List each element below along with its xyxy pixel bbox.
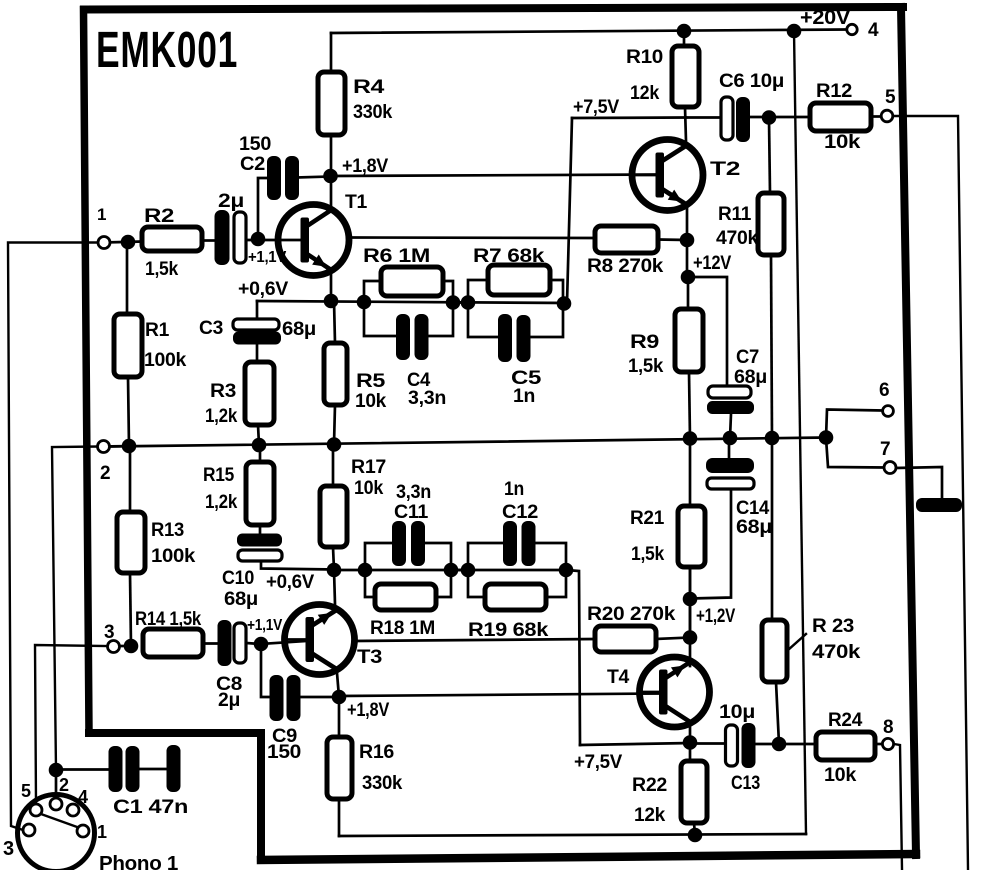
resistor R5 [324, 343, 347, 405]
svg-text:5: 5 [21, 781, 31, 801]
junction node R1/R2 input [121, 235, 136, 250]
label T1 [345, 192, 368, 213]
wire terminal7 to chassis ground [896, 467, 942, 499]
svg-text:330k: 330k [362, 773, 403, 794]
wire bus right node down to terminal7 [826, 438, 884, 468]
wire R11 top [769, 119, 770, 193]
junction node bus R3/R15 [252, 438, 267, 453]
label Phono 1 [99, 853, 178, 870]
svg-text:R4: R4 [353, 77, 385, 98]
wire C2 left elbow down to base node [258, 178, 267, 239]
junction node R10 +20V [677, 24, 692, 39]
svg-text:R22: R22 [632, 775, 667, 796]
wire cell2 upper loop left [468, 280, 488, 303]
junction node T3 emitter [327, 563, 342, 578]
wire R15 top [259, 445, 262, 462]
svg-text:R20 270k: R20 270k [587, 604, 676, 625]
wire terminal1 to left edge and down to phono pin3 [8, 243, 99, 831]
wire R15 bottom to C10 [259, 525, 262, 535]
junction node bus R11/R23 [765, 431, 780, 446]
svg-text:12k: 12k [630, 83, 660, 104]
svg-text:R17: R17 [351, 457, 386, 478]
label C3 [199, 318, 223, 339]
label R18 1M [370, 618, 435, 639]
junction node T1 emitter [324, 294, 339, 309]
junction node cell3 left [358, 563, 373, 578]
wire T1 emitter down to node [330, 275, 333, 301]
svg-text:C12: C12 [502, 502, 538, 523]
wire R9 bottom to bus [689, 372, 690, 439]
label R12 [816, 81, 852, 102]
label R8 270k [587, 256, 664, 277]
wire +7.5V line to T2 collector node [572, 116, 686, 119]
junction node R22 on rail [688, 828, 703, 843]
terminal 6 [883, 406, 894, 417]
label R15 [203, 465, 235, 486]
junction node +20V feeder [787, 24, 802, 39]
wire C3 stem top [256, 301, 259, 318]
svg-text:68μ: 68μ [736, 517, 772, 538]
svg-text:R18 1M: R18 1M [370, 618, 435, 639]
label C10 value [224, 589, 258, 610]
svg-text:+7,5V: +7,5V [573, 97, 620, 118]
label C1 47n [113, 797, 188, 818]
wire R3 bottom to bus [258, 425, 259, 445]
chassis ground bar [916, 498, 962, 512]
wire R10 top to +20V rail [683, 31, 686, 46]
wire C2 right to collector node [297, 177, 331, 178]
wire terminal3 left and down to phono pin5 [35, 645, 108, 804]
capacitor C11 3.3n [392, 521, 425, 566]
svg-text:R 23: R 23 [812, 616, 854, 637]
svg-text:1,5k: 1,5k [628, 356, 664, 377]
wire R21 top to bus [689, 439, 692, 507]
wire terminal8 right and down [894, 744, 902, 869]
resistor R24 [816, 732, 875, 760]
svg-text:R10: R10 [626, 47, 663, 68]
wire lower feedback node down to +7.5V line [566, 570, 580, 745]
wire T3 base [261, 641, 306, 644]
wire +1.2V node to R20 node [689, 599, 692, 638]
svg-text:5: 5 [885, 87, 896, 108]
svg-text:150: 150 [239, 134, 271, 155]
svg-text:68μ: 68μ [734, 367, 767, 388]
label C10 [222, 568, 254, 589]
junction node cell4 right [559, 563, 574, 578]
wire cell3 upper loop right [425, 543, 451, 570]
label terminal 3 [104, 622, 114, 643]
wire R23 bottom to output node [776, 682, 779, 744]
svg-text:2μ: 2μ [218, 191, 244, 212]
svg-text:T4: T4 [607, 667, 630, 688]
svg-text:R19 68k: R19 68k [468, 620, 549, 641]
wire R5 bottom to bus [334, 405, 335, 445]
svg-text:68μ: 68μ [224, 589, 258, 610]
wire lower +7.5V line to T4 collector node [580, 743, 690, 745]
label R21 value [631, 544, 665, 565]
svg-text:12k: 12k [634, 805, 666, 826]
wire input cap to T1 base node [246, 239, 280, 242]
svg-text:C1 47n: C1 47n [113, 797, 188, 818]
wire +20V rail [331, 30, 846, 34]
svg-text:3,3n: 3,3n [396, 482, 431, 503]
wire T3 collector node to T4 base [339, 694, 659, 697]
wire ground bus 0V row [109, 438, 826, 447]
resistor R10 [672, 46, 699, 107]
resistor R9 [675, 309, 703, 372]
svg-text:R11: R11 [718, 204, 752, 225]
junction node bus C7/C14 [723, 431, 738, 446]
svg-text:+1,1V: +1,1V [248, 249, 287, 266]
svg-text:R16: R16 [359, 742, 394, 763]
label R22 [632, 775, 667, 796]
svg-text:10μ: 10μ [719, 702, 755, 723]
label T2 [710, 159, 740, 180]
svg-text:6: 6 [879, 380, 889, 401]
label R11 value [716, 228, 759, 249]
junction node +1.2V [683, 592, 698, 607]
resistor R15 [246, 462, 274, 525]
svg-text:R7 68k: R7 68k [473, 246, 545, 267]
resistor R18 [375, 584, 436, 610]
label +7.5V lower [574, 752, 623, 773]
label +1.8V [342, 156, 389, 177]
wire C7 bottom to bus [730, 414, 731, 438]
wire cell1 lower loop right [429, 302, 453, 336]
phono internal link pin5 to pin1 [41, 814, 77, 827]
svg-text:100k: 100k [144, 350, 187, 371]
label R2 [144, 206, 174, 227]
wire R16 bottom to +20V return rail [338, 799, 341, 836]
label terminal 4 [868, 20, 879, 41]
wire R9 top [687, 277, 690, 309]
junction node C1 / phono pin2 [49, 763, 64, 778]
label 150 [239, 134, 271, 155]
svg-text:8: 8 [883, 717, 893, 738]
junction node T3 collector +1.8V [332, 690, 347, 705]
svg-text:T1: T1 [345, 192, 368, 213]
label C12 [502, 502, 538, 523]
svg-text:+0,6V: +0,6V [238, 279, 289, 300]
svg-text:C7: C7 [736, 347, 759, 368]
wire R4 top to +20V rail [330, 33, 333, 72]
svg-text:C14: C14 [736, 498, 770, 519]
svg-text:C11: C11 [394, 502, 429, 523]
svg-text:470k: 470k [812, 642, 861, 663]
label R3 value [205, 406, 238, 427]
wire C9 right to T3 collector node [300, 696, 339, 699]
wire R20 right to T4 emitter node [656, 638, 690, 640]
label R9 value [628, 356, 664, 377]
phono pin 2 [50, 798, 62, 810]
wire input row: terminal1 to R2 [104, 242, 142, 243]
wire terminal2 left and down to C1 node [52, 447, 98, 771]
wire R17 bottom to node [333, 547, 334, 570]
wire C3 bottom to R3 [256, 344, 259, 362]
label +0.6V [238, 279, 289, 300]
wire bus right node up to terminal6 [826, 410, 882, 439]
svg-text:1n: 1n [504, 479, 524, 500]
label 3.3n [396, 482, 431, 503]
wire +20V return rail [339, 834, 806, 836]
wire R23 top to bus [771, 438, 774, 620]
resistor R20 [595, 626, 656, 652]
label R19 68k [468, 620, 549, 641]
wire terminal2 stub [104, 445, 130, 448]
label terminal 1 [97, 205, 106, 224]
junction node cell4 left [461, 563, 476, 578]
terminal 8 [882, 738, 893, 749]
svg-text:C10: C10 [222, 568, 254, 589]
svg-text:330k: 330k [353, 102, 393, 123]
wire R13 top [129, 446, 132, 512]
wire terminal5 to right edge and down [893, 116, 968, 869]
phono pin 5 [30, 804, 42, 816]
terminal 7 [884, 462, 896, 474]
phono pin 4 [67, 804, 79, 816]
svg-text:R8 270k: R8 270k [587, 256, 664, 277]
wire emitter node row [257, 301, 568, 303]
capacitor C13 10u [726, 723, 756, 768]
resistor R13 [117, 512, 145, 573]
wire +12V node to C7 top elbow [688, 277, 727, 387]
label R5 value [355, 391, 387, 412]
svg-text:R14 1,5k: R14 1,5k [135, 609, 202, 630]
wire R1 top [126, 242, 129, 314]
label terminal 2 [100, 463, 110, 484]
label 2u [218, 191, 244, 212]
svg-text:68μ: 68μ [282, 319, 316, 340]
svg-text:C2: C2 [240, 154, 265, 175]
resistor R21 [678, 506, 705, 567]
wire feedback node up to +7.5V line [567, 118, 572, 303]
svg-text:R9: R9 [630, 332, 659, 353]
label C8 value [218, 690, 240, 711]
junction node bus R9/R21 [683, 431, 698, 446]
junction node R20/T4 emitter [683, 630, 698, 645]
svg-text:+1,8V: +1,8V [342, 156, 389, 177]
label +1.2V [696, 606, 735, 627]
svg-text:10k: 10k [354, 478, 384, 499]
label terminal 5 [885, 87, 896, 108]
label R4 value [353, 102, 393, 123]
wire cell4 upper loop left [468, 543, 503, 570]
label C9 [272, 726, 297, 747]
resistor R8 [595, 226, 658, 253]
svg-text:2: 2 [100, 463, 110, 484]
wire C14 top to bus [728, 438, 731, 458]
junction node cell1 left [357, 295, 372, 310]
terminal 5 [881, 110, 893, 122]
capacitor C7 68u [707, 386, 754, 414]
junction node T1 collector +1.8V [323, 169, 338, 184]
label C5 [511, 368, 542, 389]
svg-text:3,3n: 3,3n [408, 388, 446, 409]
label R13 value [151, 546, 196, 567]
resistor R6 [381, 267, 443, 296]
wire cell4 lower loop left [468, 570, 485, 597]
label C6 10u [719, 71, 784, 92]
wire R24 to terminal8 [875, 743, 882, 746]
label R2 value [145, 259, 179, 280]
label R17 [351, 457, 386, 478]
wire R20 left to T3 base side [354, 639, 595, 641]
wire cell4 upper loop right [536, 543, 566, 570]
resistor R11 [758, 193, 784, 255]
terminal 1 [98, 237, 110, 249]
svg-text:1n: 1n [513, 386, 535, 407]
label R9 [630, 332, 659, 353]
wire R8 right to T2 emitter [658, 238, 687, 241]
wire node to R12 [769, 116, 810, 119]
capacitor C3 68u [233, 319, 281, 345]
svg-text:R1: R1 [145, 320, 170, 341]
wire T3 emitter node row [334, 569, 566, 572]
label R4 [353, 77, 385, 98]
wire node to C13 [690, 742, 726, 745]
label R1 value [144, 350, 187, 371]
svg-text:Phono 1: Phono 1 [99, 853, 178, 870]
terminal 4 [847, 24, 857, 34]
label +1.1V [248, 249, 287, 266]
svg-text:+7,5V: +7,5V [574, 752, 623, 773]
wire T2 emitter down [686, 205, 689, 277]
label R13 [151, 520, 184, 541]
junction node bus terminals 6-7 [819, 430, 834, 445]
junction node bus R1 [122, 439, 137, 454]
wire +20V vertical feeder [794, 31, 806, 834]
label R10 [626, 47, 663, 68]
capacitor input 2u [215, 210, 247, 265]
transistor T4 [640, 657, 710, 727]
label R5 [356, 371, 386, 392]
label terminal 8 [883, 717, 893, 738]
wire cell1 upper loop left [364, 281, 381, 302]
label C11 [394, 502, 429, 523]
junction node bus R5/R17 [327, 437, 342, 452]
junction node T1 base / C2 [251, 232, 266, 247]
svg-text:R5: R5 [356, 371, 386, 392]
svg-text:3: 3 [3, 838, 14, 860]
label R17 value [354, 478, 384, 499]
wire R2 to input cap 2u [202, 239, 215, 242]
junction node +12V [681, 270, 696, 285]
svg-text:+1,8V: +1,8V [347, 700, 390, 721]
label +0.6V lower [266, 572, 315, 593]
capacitor C5 1n [498, 314, 531, 362]
svg-text:+12V: +12V [693, 253, 732, 274]
svg-text:150: 150 [267, 742, 301, 763]
svg-text:T3: T3 [357, 647, 382, 668]
label phono pin 5 [21, 781, 31, 801]
wire R5 top [334, 301, 335, 343]
svg-text:10k: 10k [355, 391, 387, 412]
label R15 value [205, 492, 238, 513]
label +1.8V lower [347, 700, 390, 721]
svg-text:R21: R21 [630, 508, 665, 529]
label +7.5V top [573, 97, 620, 118]
resistor R7 [488, 265, 550, 295]
phono pin 3 [23, 824, 35, 836]
capacitor C12 1n [503, 521, 536, 566]
resistor R16 [327, 737, 352, 799]
terminal 3 [108, 641, 120, 653]
wire cell4 lower loop right [546, 570, 566, 597]
wire C9 left elbow up to base node [261, 644, 270, 697]
transistor T2 [632, 140, 703, 211]
svg-text:C13: C13 [731, 773, 760, 794]
label R24 value [824, 765, 857, 786]
wire link between cell1 and cell2 [453, 301, 468, 304]
wire cell2 lower loop left [468, 303, 498, 337]
label R16 [359, 742, 394, 763]
wire cell1 upper loop right [443, 281, 453, 302]
label +20V [800, 7, 851, 29]
label +1.1V lower [247, 617, 283, 634]
svg-text:470k: 470k [716, 228, 759, 249]
wire C6 left [686, 116, 721, 119]
label R21 [630, 508, 665, 529]
svg-text:4: 4 [78, 787, 88, 807]
wire node down to phono pin2 [55, 770, 58, 799]
label C2 [240, 154, 265, 175]
pointer line R23 label [788, 634, 806, 650]
resistor R22 [681, 761, 707, 823]
svg-text:C3: C3 [199, 318, 223, 339]
capacitor C4 3.3n [396, 314, 429, 360]
junction node cell3 right [444, 563, 459, 578]
label C13 [731, 773, 760, 794]
wire R16 top [338, 697, 341, 737]
label T3 [357, 647, 382, 668]
terminal 2 [98, 441, 110, 453]
svg-text:3: 3 [104, 622, 114, 643]
wire R11 bottom to bus [771, 255, 772, 438]
svg-text:T2: T2 [710, 159, 740, 180]
capacitor C1 47n [109, 745, 181, 792]
junction node cell2 left [461, 295, 476, 310]
wire cell2 upper loop right [549, 280, 563, 303]
svg-text:R24: R24 [828, 710, 863, 731]
wire C10 bottom elbow to T3 emitter node [261, 561, 334, 570]
wire cell3 upper loop left [365, 543, 392, 570]
wire link cell3-cell4 [451, 569, 468, 572]
label R14 1.5k [135, 609, 202, 630]
svg-text:10k: 10k [824, 132, 861, 153]
wire C1 middle link [139, 768, 167, 771]
label R22 value [634, 805, 666, 826]
label R11 [718, 204, 752, 225]
svg-text:1: 1 [97, 205, 106, 224]
label R6 1M [363, 246, 430, 267]
wire cell1 lower loop left [364, 302, 396, 336]
junction node T3 base / C8 [254, 637, 269, 652]
resistor R19 [485, 584, 546, 610]
wire C8 to T3 base node [246, 643, 261, 644]
phono connector DIN circle [18, 795, 95, 870]
wire R21 bottom to +1.2V node [689, 567, 692, 599]
wire R12 to terminal5 [871, 115, 881, 118]
label 10u [719, 702, 755, 723]
label R1 [145, 320, 170, 341]
wire R17 top to bus [332, 445, 335, 487]
label phono pin 3 [3, 838, 14, 860]
svg-text:+1,2V: +1,2V [696, 606, 735, 627]
wire cell3 lower loop right [436, 570, 451, 597]
wire C13 right to node [755, 743, 779, 746]
svg-text:R2: R2 [144, 206, 174, 227]
label C9 value [267, 742, 301, 763]
